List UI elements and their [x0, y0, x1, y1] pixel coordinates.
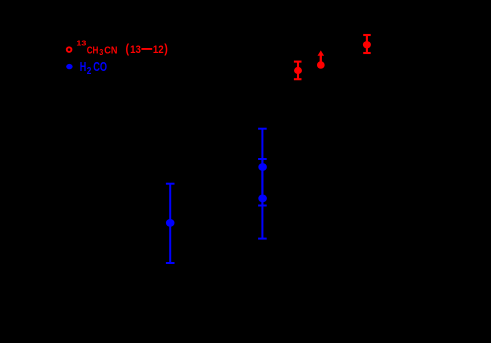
svg-text:2: 2 — [87, 65, 92, 77]
svg-text:): ) — [164, 41, 168, 56]
svg-text:13: 13 — [76, 41, 86, 48]
svg-text:CN: CN — [104, 45, 117, 56]
svg-text:H: H — [80, 60, 87, 74]
legend label H2CO — [80, 60, 107, 77]
data point red P1 with error bar — [294, 62, 302, 80]
svg-text:CO: CO — [93, 60, 107, 74]
svg-text:CH: CH — [87, 45, 99, 56]
svg-text:3: 3 — [99, 48, 103, 57]
legend marker H2CO (filled blue circle) — [66, 64, 72, 69]
svg-text:13: 13 — [130, 44, 141, 56]
svg-text:12: 12 — [153, 44, 164, 56]
svg-text:(: ( — [126, 41, 130, 56]
legend marker 13CH3CN (open red circle) — [67, 47, 72, 52]
data point blue B3 with error bar — [258, 159, 267, 239]
data point red P2 with upward limit arrow — [317, 50, 325, 68]
data point red P3 with error bar — [363, 35, 371, 53]
data point blue B1 with error bar — [166, 184, 175, 263]
data point blue B2 with error bar — [258, 129, 267, 206]
legend label 13CH3CN (13-12) — [76, 41, 168, 58]
